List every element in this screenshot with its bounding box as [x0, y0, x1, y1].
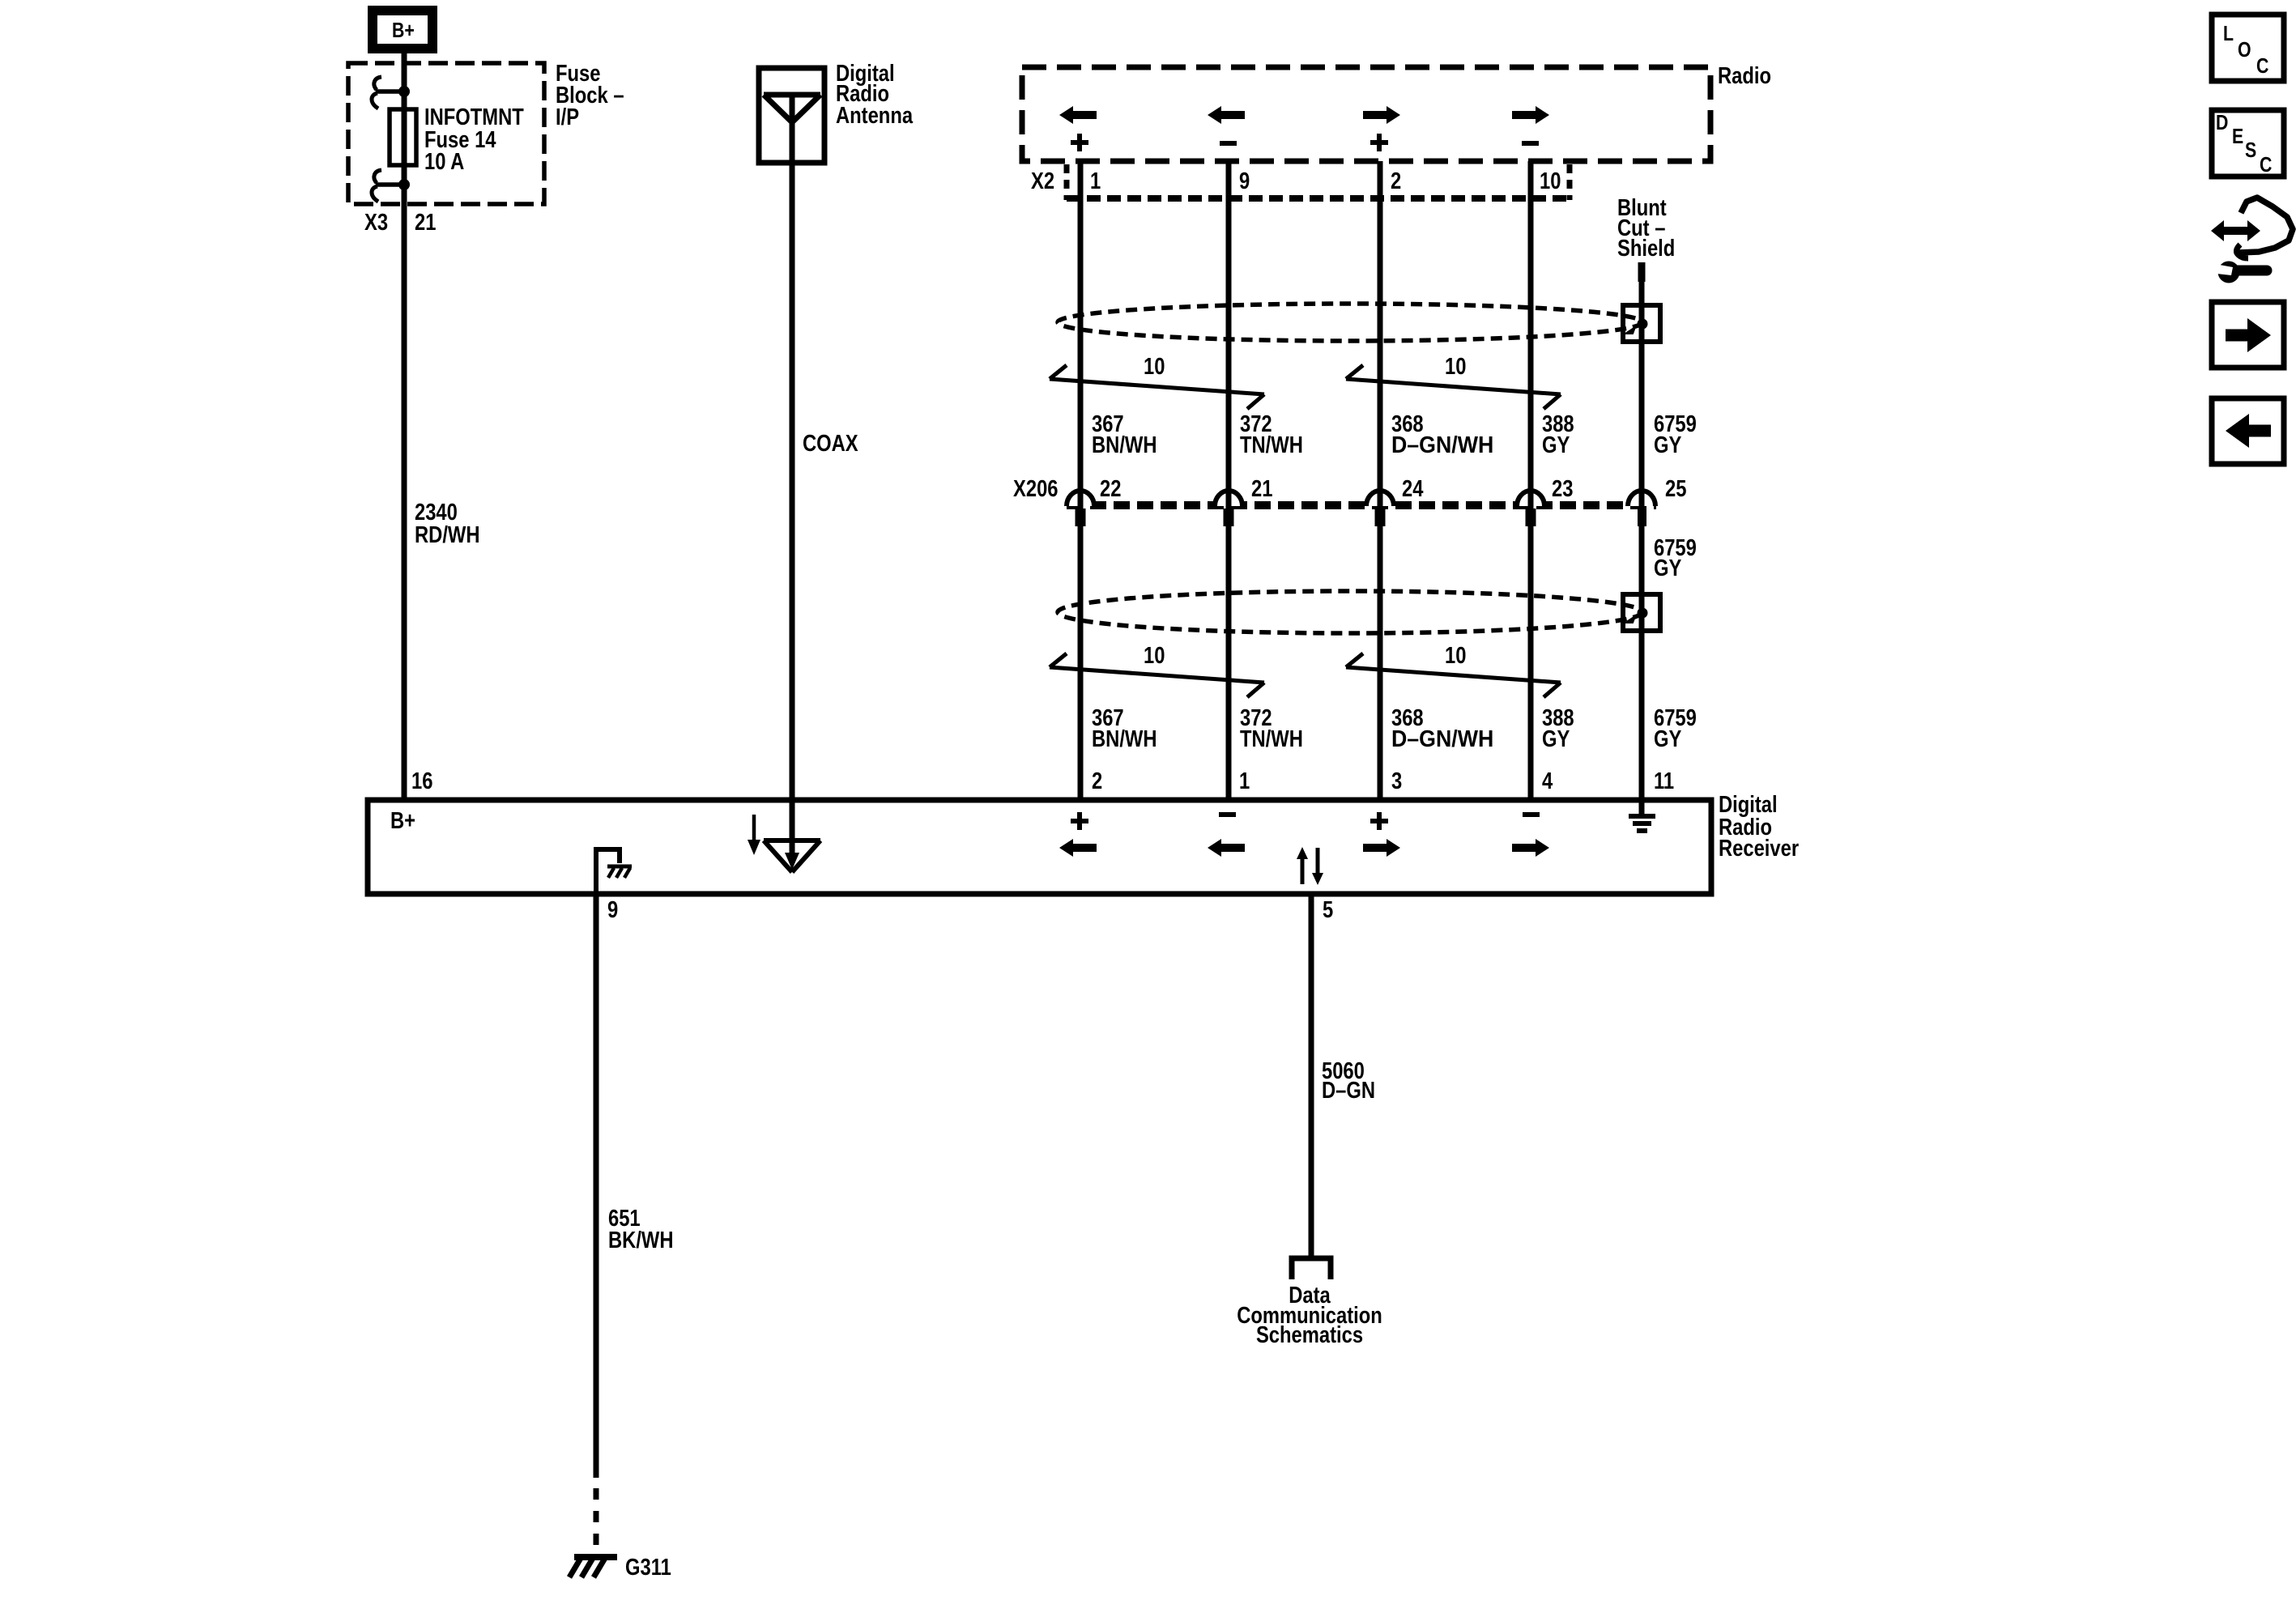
svg-text:L: L	[2223, 22, 2234, 46]
icon service procedure (hand outline)	[2238, 198, 2293, 253]
svg-text:D–GN: D–GN	[1322, 1077, 1375, 1104]
label Blunt Cut - Shield	[1617, 194, 1675, 262]
shield arrow mark 1	[1625, 327, 1635, 334]
receiver arrow left (pin 1)	[1208, 839, 1245, 857]
shield terminal dot 2	[1638, 608, 1648, 619]
connector clip lower (fuse block pin 21)	[372, 170, 410, 202]
icon forward arrow box	[2212, 302, 2284, 368]
wire 367 BN/WH (radio pin 1 to receiver pin 2)	[1078, 161, 1084, 800]
svg-text:10: 10	[1445, 642, 1466, 669]
svg-text:GY: GY	[1542, 432, 1570, 458]
svg-text:Antenna: Antenna	[836, 102, 913, 129]
fuse block dashed box Fuse Block - I/P	[348, 63, 544, 204]
blunt cut shield square 2	[1623, 594, 1660, 631]
wire 372 TN/WH (radio pin 9 to receiver pin 1)	[1226, 161, 1232, 800]
connector X2 dotted outline right	[1567, 164, 1573, 200]
wire label 368 D-GN/WH row1	[1391, 411, 1493, 458]
label Digital Radio Receiver	[1719, 791, 1799, 862]
connector X206 dashed line	[1067, 501, 1656, 509]
connector X2 dotted outline left	[1064, 164, 1070, 200]
icon service wrench	[2215, 262, 2267, 283]
X206 socket arc pin 21	[1215, 491, 1242, 506]
svg-text:GY: GY	[1654, 726, 1682, 752]
svg-text:S: S	[2245, 138, 2256, 163]
twist marker pair 1-9 upper	[1050, 365, 1264, 409]
wire label 388 GY row1	[1542, 411, 1574, 458]
radio plus sign (pin 1)	[1071, 134, 1088, 151]
svg-text:1: 1	[1090, 168, 1101, 194]
radio minus sign (pin 10)	[1522, 141, 1539, 146]
svg-text:Shield: Shield	[1617, 235, 1675, 262]
svg-text:3: 3	[1391, 768, 1402, 794]
svg-text:10: 10	[1144, 353, 1165, 380]
svg-text:RD/WH: RD/WH	[415, 521, 480, 548]
svg-text:Radio: Radio	[1718, 62, 1771, 89]
wire label 651 BK/WH	[608, 1205, 674, 1253]
svg-text:C: C	[2256, 54, 2268, 79]
receiver minus sign (pin 4)	[1523, 812, 1540, 817]
svg-text:BN/WH: BN/WH	[1092, 432, 1157, 458]
svg-text:G311: G311	[625, 1554, 671, 1581]
svg-text:2: 2	[1391, 168, 1401, 194]
wire label 388 GY row2	[1542, 704, 1574, 752]
wire label 6759 GY row2	[1654, 704, 1697, 752]
coax wire antenna to receiver	[790, 165, 795, 800]
wire 388 GY (radio pin 10 to receiver pin 4)	[1528, 161, 1534, 800]
twisted pair shield ellipse 1	[1058, 304, 1642, 341]
ground wire 651 BK/WH solid segment	[594, 894, 599, 1478]
svg-text:9: 9	[607, 896, 618, 923]
svg-text:TN/WH: TN/WH	[1240, 726, 1303, 752]
svg-text:BN/WH: BN/WH	[1092, 726, 1157, 752]
receiver arrow right (pin 3)	[1363, 839, 1400, 857]
svg-text:10: 10	[1540, 168, 1561, 194]
twisted pair shield ellipse 2	[1058, 591, 1642, 633]
svg-text:X206: X206	[1013, 475, 1058, 502]
wire label 372 TN/WH row1	[1240, 411, 1303, 458]
svg-text:D–GN/WH: D–GN/WH	[1391, 432, 1493, 458]
svg-text:10 A: 10 A	[424, 148, 464, 175]
svg-text:GY: GY	[1654, 432, 1682, 458]
antenna symbol	[764, 95, 820, 165]
receiver arrow left (pin 2)	[1059, 839, 1097, 857]
svg-text:5: 5	[1323, 896, 1333, 923]
digital radio receiver box	[368, 800, 1711, 894]
radio arrow right (pin 10)	[1512, 106, 1549, 124]
X206 pin stub 21	[1224, 509, 1234, 526]
svg-text:24: 24	[1402, 475, 1424, 502]
power symbol B+	[373, 11, 432, 49]
X206 socket arc pin 22	[1067, 491, 1094, 506]
receiver arrow right (pin 4)	[1512, 839, 1549, 857]
receiver internal antenna symbol	[764, 800, 820, 872]
shield arrow mark 2	[1625, 616, 1635, 623]
antenna box Digital Radio Antenna	[759, 68, 824, 163]
off-page connector bracket (data communication)	[1292, 1258, 1331, 1279]
X206 socket arc pin 24	[1366, 491, 1394, 506]
icon DESC box	[2212, 110, 2284, 177]
data wire 5060 D-GN	[1309, 894, 1314, 1258]
svg-text:B+: B+	[390, 807, 415, 834]
X206 pin stub 23	[1526, 509, 1536, 526]
X206 pin stub 25	[1638, 509, 1646, 526]
svg-text:10: 10	[1445, 353, 1466, 380]
svg-text:X3: X3	[364, 209, 388, 236]
radio minus sign (pin 9)	[1220, 141, 1237, 146]
wire battery feed 2340 RD/WH	[402, 53, 407, 800]
svg-text:4: 4	[1542, 768, 1553, 794]
connector label X3 pin 21	[364, 209, 436, 236]
svg-text:D–GN/WH: D–GN/WH	[1391, 726, 1493, 752]
wire segments through X206 sockets	[1080, 488, 1642, 510]
svg-text:1: 1	[1239, 768, 1250, 794]
svg-text:C: C	[2260, 153, 2272, 177]
blunt cut shield square 1	[1623, 305, 1660, 342]
svg-text:Schematics: Schematics	[1256, 1321, 1363, 1348]
svg-text:Receiver: Receiver	[1719, 835, 1799, 862]
icon service procedure double arrow	[2211, 220, 2260, 241]
icon LOC box	[2212, 15, 2284, 81]
svg-text:16: 16	[411, 768, 432, 794]
svg-text:D: D	[2216, 111, 2228, 135]
twist marker pair 1-9 lower	[1050, 653, 1264, 697]
X206 socket arc pin 23	[1517, 491, 1544, 506]
receiver plus sign (pin 3)	[1370, 812, 1388, 830]
radio dashed box	[1022, 67, 1710, 161]
connector clip upper (fuse block feed)	[372, 77, 410, 109]
receiver shield ground symbol (pin 11)	[1629, 800, 1655, 831]
wire label 6759 GY below X206	[1654, 534, 1697, 581]
twist marker pair 2-10 lower	[1346, 653, 1561, 697]
wire label 5060 D-GN	[1322, 1057, 1375, 1104]
svg-text:10: 10	[1144, 642, 1165, 669]
connector X2 dashed line	[1067, 195, 1570, 202]
wire label 372 TN/WH row2	[1240, 704, 1303, 752]
receiver internal down arrow (antenna input)	[748, 815, 760, 855]
svg-text:25: 25	[1665, 475, 1686, 502]
twist marker pair 2-10 upper	[1346, 365, 1561, 409]
fuse F14 INFOTMNT 10 A	[390, 109, 416, 165]
svg-text:COAX: COAX	[803, 430, 858, 457]
ground G311 chassis symbol	[569, 1555, 617, 1577]
label Data Communication Schematics	[1237, 1282, 1382, 1348]
svg-text:GY: GY	[1542, 726, 1570, 752]
receiver internal ground elbow (pin 9)	[596, 849, 620, 894]
svg-text:2: 2	[1092, 768, 1102, 794]
shield wire 6759 GY upper segment	[1639, 279, 1645, 800]
wire label 367 BN/WH row2	[1092, 704, 1157, 752]
receiver plus sign (pin 2)	[1071, 812, 1088, 830]
radio plus sign (pin 2)	[1370, 134, 1388, 151]
svg-text:O: O	[2238, 38, 2251, 62]
svg-text:TN/WH: TN/WH	[1240, 432, 1303, 458]
svg-text:21: 21	[1251, 475, 1272, 502]
wire label 2340 RD/WH	[415, 499, 480, 548]
label fuse INFOTMNT Fuse 14 10 A	[424, 104, 524, 175]
wire label 368 D-GN/WH row2	[1391, 704, 1493, 752]
svg-text:GY: GY	[1654, 555, 1682, 581]
shield terminal dot 1	[1638, 319, 1648, 330]
label Digital Radio Antenna	[836, 60, 913, 129]
svg-text:X2: X2	[1031, 168, 1054, 194]
svg-text:I/P: I/P	[556, 104, 579, 130]
X206 pin stub 22	[1076, 509, 1086, 526]
svg-text:E: E	[2232, 125, 2243, 149]
svg-text:BK/WH: BK/WH	[608, 1227, 674, 1253]
icon back arrow box	[2212, 398, 2284, 464]
receiver internal chassis ground symbol	[607, 866, 632, 878]
svg-text:B+: B+	[392, 19, 415, 43]
shield wire 6759 GY top stub	[1638, 262, 1646, 282]
ground wire 651 BK/WH dashed segment	[594, 1488, 599, 1558]
svg-text:21: 21	[415, 209, 436, 236]
svg-text:9: 9	[1239, 168, 1250, 194]
svg-text:23: 23	[1552, 475, 1573, 502]
wire label 6759 GY row1	[1654, 411, 1697, 458]
receiver minus sign (pin 1)	[1219, 812, 1236, 817]
wire 368 D-GN/WH (radio pin 2 to receiver pin 3)	[1378, 161, 1383, 800]
wire label 367 BN/WH row1	[1092, 411, 1157, 458]
receiver double arrow (pin 5 data)	[1297, 847, 1323, 885]
radio arrow left (pin 9)	[1208, 106, 1245, 124]
svg-text:11: 11	[1654, 768, 1674, 794]
svg-text:22: 22	[1100, 475, 1121, 502]
radio arrow right (pin 2)	[1363, 106, 1400, 124]
label Fuse Block - I/P	[556, 60, 624, 130]
icon service procedure hook	[2236, 245, 2248, 258]
X206 socket arc pin 25	[1628, 491, 1655, 506]
X206 pin stub 24	[1375, 509, 1386, 526]
radio arrow left (pin 1)	[1059, 106, 1097, 124]
